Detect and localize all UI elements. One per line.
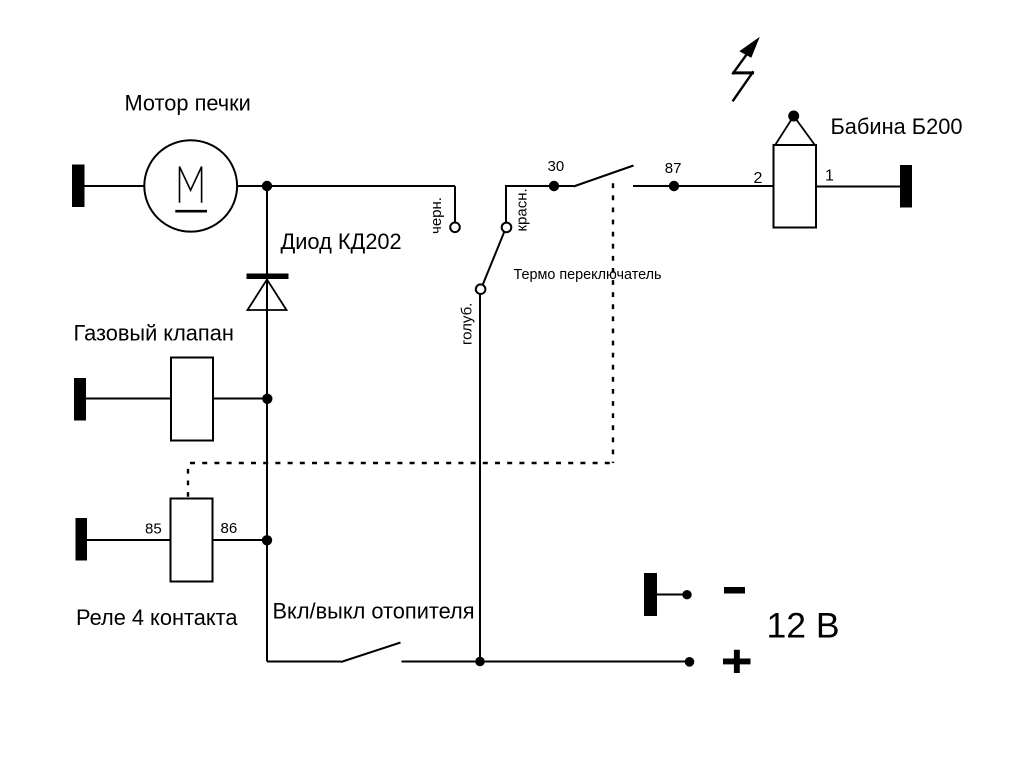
node plus terminal <box>685 657 695 667</box>
svg-text:Бабина Б200: Бабина Б200 <box>831 114 963 139</box>
dashed control line vertical to relay <box>187 469 189 498</box>
gas valve body <box>171 358 213 441</box>
lightning spark <box>732 37 760 102</box>
svg-text:Диод КД202: Диод КД202 <box>281 229 402 254</box>
node (motor/diode junction) <box>262 181 272 191</box>
svg-text:85: 85 <box>145 521 162 538</box>
contact красн. <box>502 223 512 233</box>
thermo switch blade <box>483 232 505 285</box>
wire bottom left <box>267 661 341 663</box>
diode D КД202 triangle <box>248 280 287 311</box>
node (relay junction) <box>262 535 272 545</box>
contact черн. <box>450 223 460 233</box>
relay body <box>171 499 213 582</box>
node 87 <box>669 181 679 191</box>
diode D КД202 cathode bar <box>247 274 289 280</box>
coil body <box>774 145 817 228</box>
svg-text:Термо переключатель: Термо переключатель <box>514 267 662 283</box>
coil top node <box>788 111 799 122</box>
wire <box>816 186 900 188</box>
terminal bar (motor supply) <box>72 165 85 208</box>
wire <box>84 185 145 187</box>
svg-text:2: 2 <box>754 170 763 187</box>
wire <box>213 398 267 400</box>
label plus <box>723 650 751 673</box>
svg-text:30: 30 <box>548 158 565 175</box>
wire <box>237 185 456 187</box>
node (gas valve junction) <box>262 394 272 404</box>
label minus <box>724 587 745 594</box>
terminal bar (gas valve) <box>74 378 86 421</box>
wire to contact 30 <box>505 185 574 187</box>
node 30 <box>549 181 559 191</box>
wire черн. drop <box>454 186 456 222</box>
dashed control line vertical from thermo switch <box>612 183 614 463</box>
svg-text:Вкл/выкл отопителя: Вкл/выкл отопителя <box>273 598 475 623</box>
node negative terminal <box>682 590 691 599</box>
contact голуб. <box>476 284 486 294</box>
wire <box>213 539 268 541</box>
svg-text:красн.: красн. <box>514 188 531 231</box>
wire красн. branch <box>505 186 506 223</box>
switch blade (30-87) <box>574 166 634 187</box>
wire bottom <box>402 661 690 663</box>
wire <box>87 539 171 541</box>
wire голуб. vertical <box>479 294 481 662</box>
node (голуб. junction) <box>475 657 485 667</box>
wire <box>86 398 171 400</box>
switch blade (heater on/off) <box>341 643 401 663</box>
svg-text:черн.: черн. <box>428 197 445 234</box>
terminal bar (coil output) <box>900 165 912 208</box>
motor M <box>144 140 237 231</box>
wire negative <box>657 594 686 596</box>
coil top triangle <box>776 116 815 145</box>
dashed control line horizontal <box>190 462 613 464</box>
wire 87 <box>633 185 774 187</box>
svg-text:Реле 4 контакта: Реле 4 контакта <box>76 605 238 630</box>
svg-text:Газовый клапан: Газовый клапан <box>74 321 234 346</box>
battery negative bar <box>644 573 657 616</box>
svg-text:1: 1 <box>825 168 834 185</box>
svg-text:Мотор печки: Мотор печки <box>125 91 251 116</box>
vertical bus wire <box>266 186 268 662</box>
terminal bar (relay) <box>76 518 88 561</box>
svg-text:12 В: 12 В <box>767 605 840 645</box>
svg-text:86: 86 <box>221 520 238 537</box>
svg-text:голуб.: голуб. <box>459 303 476 345</box>
svg-text:87: 87 <box>665 160 682 177</box>
